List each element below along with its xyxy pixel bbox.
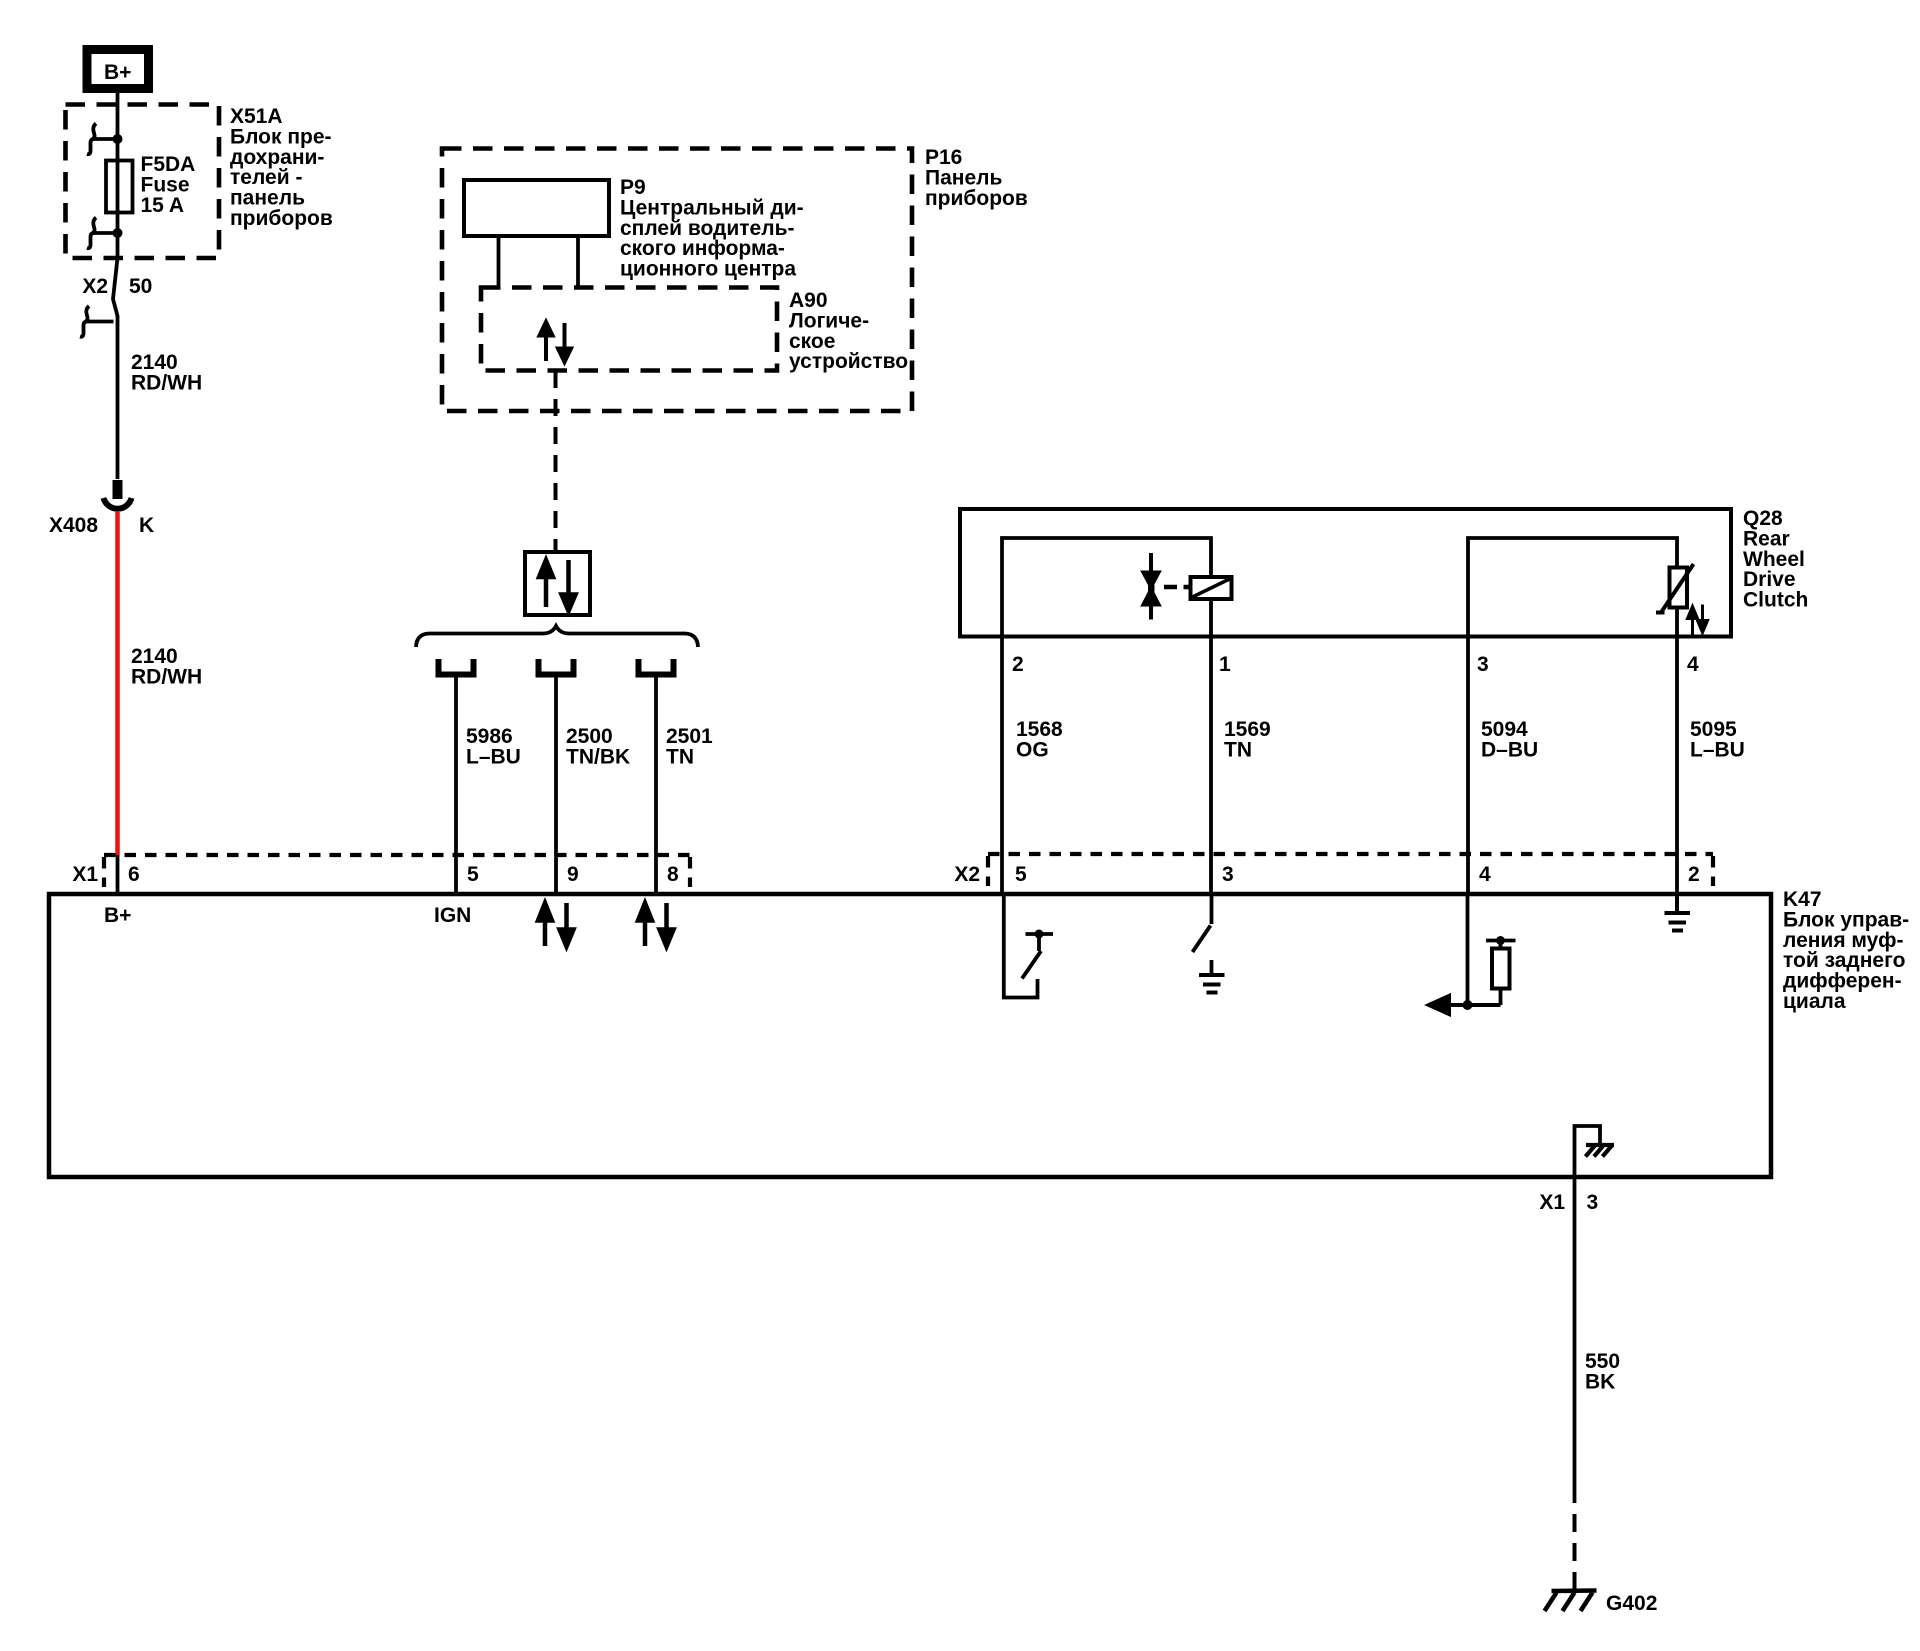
wire 2500 bbox=[554, 678, 558, 895]
terminal hook below fuse block bbox=[80, 306, 114, 337]
K47 serial down arrow pin 9 bbox=[560, 903, 574, 947]
svg-text:B+: B+ bbox=[104, 904, 131, 927]
X2 right terminator bbox=[1711, 856, 1715, 886]
svg-text:X1: X1 bbox=[72, 863, 98, 886]
wire fuse to connector row bbox=[116, 213, 120, 259]
clutch engage down arrow bbox=[1144, 553, 1159, 587]
K47 internal switch to ground under pin 3 bbox=[1193, 894, 1212, 973]
svg-text:8: 8 bbox=[667, 863, 679, 886]
B+ power feed symbol bbox=[87, 50, 149, 89]
svg-text:6: 6 bbox=[128, 863, 140, 886]
svg-text:5: 5 bbox=[467, 863, 479, 886]
left arrow under pin 4 bbox=[1429, 996, 1501, 1014]
G402 ground symbol bbox=[1545, 1591, 1597, 1612]
Q28 clutch coil loop left bbox=[1002, 538, 1211, 637]
switch pivot dot pin 5 bbox=[1035, 930, 1044, 939]
wire Q28 pin 4 to K47 bbox=[1675, 637, 1679, 895]
fuse F5DA bbox=[106, 161, 133, 213]
connector terminal U pin 5986 bbox=[439, 659, 474, 675]
wire 550 BK dashed bbox=[1573, 1514, 1577, 1591]
resistor box bbox=[1492, 949, 1510, 989]
resistor top dot bbox=[1496, 936, 1505, 945]
serial data box up arrow bbox=[539, 560, 553, 607]
svg-text:2: 2 bbox=[1012, 653, 1024, 676]
svg-text:X1: X1 bbox=[1539, 1191, 1565, 1214]
P16 instrument panel dashed box bbox=[442, 149, 912, 412]
wire Q28 pin 1 to K47 bbox=[1209, 637, 1213, 895]
K47 rear differential clutch control module box bbox=[49, 894, 1771, 1177]
wire Q28 pin 2 to K47 bbox=[1000, 637, 1004, 895]
X2 left terminator bbox=[986, 856, 990, 886]
junction dot upper bbox=[113, 134, 123, 144]
chassis ground symbol inside K47 bbox=[1586, 1145, 1615, 1157]
wire relay to pin 1 bbox=[1209, 599, 1213, 637]
clutch engage square dot bbox=[1148, 585, 1155, 592]
svg-text:50: 50 bbox=[129, 275, 152, 298]
serial data box bbox=[525, 552, 590, 615]
A90 serial data down arrow bbox=[558, 323, 571, 362]
terminal hook upper bbox=[87, 124, 118, 155]
ground symbol under pin 3 bbox=[1199, 975, 1225, 993]
svg-text:5095L–BU: 5095L–BU bbox=[1690, 718, 1745, 761]
svg-text:K: K bbox=[139, 514, 154, 537]
svg-text:X2: X2 bbox=[82, 275, 108, 298]
clutch engage up arrow bbox=[1144, 590, 1159, 620]
thermistor small down arrow bbox=[1698, 605, 1708, 633]
relay coil diagonal bbox=[1193, 579, 1230, 597]
A90 serial data up arrow bbox=[540, 322, 553, 361]
svg-text:550BK: 550BK bbox=[1585, 1350, 1620, 1393]
red wire 2140 RD/WH bbox=[115, 512, 120, 855]
thermistor small up arrow bbox=[1688, 607, 1698, 635]
svg-text:5986L–BU: 5986L–BU bbox=[466, 725, 521, 768]
svg-text:5: 5 bbox=[1015, 863, 1027, 886]
wire 2501 bbox=[654, 678, 658, 895]
wire Q28 pin 3 to K47 bbox=[1466, 637, 1470, 895]
svg-text:9: 9 bbox=[567, 863, 579, 886]
svg-text:3: 3 bbox=[1587, 1191, 1599, 1214]
junction dot pin 4 bbox=[1463, 1000, 1473, 1010]
inline connector X408 terminal bbox=[104, 480, 132, 509]
svg-text:G402: G402 bbox=[1606, 1592, 1657, 1615]
wire X51A to X408 with kink bbox=[113, 258, 118, 479]
wire 550 BK solid bbox=[1573, 1177, 1577, 1503]
Q28 rear wheel drive clutch box bbox=[960, 509, 1731, 637]
K47 internal wire pin 4 bbox=[1466, 894, 1470, 1005]
P9 leg wire right bbox=[576, 236, 580, 288]
wire 5986 bbox=[454, 678, 458, 895]
svg-text:3: 3 bbox=[1477, 653, 1489, 676]
brace bbox=[416, 626, 698, 647]
K47 internal switch under pin 5 bbox=[1004, 894, 1053, 998]
dashed serial data wire bbox=[554, 371, 558, 551]
X51A fuse block dashed box bbox=[66, 105, 220, 259]
K47 internal ground under pin 2 bbox=[1665, 894, 1691, 931]
svg-text:1: 1 bbox=[1219, 653, 1231, 676]
svg-text:3: 3 bbox=[1222, 863, 1234, 886]
terminal hook lower bbox=[87, 218, 118, 249]
X1 connector dashed line bbox=[104, 853, 690, 857]
wire B+ down to fuse bbox=[116, 93, 120, 161]
svg-text:X2: X2 bbox=[954, 863, 980, 886]
A90 logic device dashed box bbox=[481, 288, 777, 371]
connector terminal U pin 2501 bbox=[639, 659, 674, 675]
svg-text:X408: X408 bbox=[49, 514, 98, 537]
relay coil box bbox=[1191, 577, 1232, 599]
thermistor diagonal with foot bbox=[1656, 564, 1694, 613]
K47 internal chassis ground wire bbox=[1575, 1126, 1601, 1177]
serial data box down arrow bbox=[562, 560, 576, 611]
svg-text:4: 4 bbox=[1479, 863, 1491, 886]
P9 leg wire left bbox=[497, 236, 501, 288]
X2 connector dashed line bbox=[988, 852, 1713, 856]
junction dot lower bbox=[113, 228, 123, 238]
svg-text:4: 4 bbox=[1687, 653, 1699, 676]
thermistor box bbox=[1670, 568, 1688, 608]
K47 serial up arrow pin 8 bbox=[638, 903, 652, 946]
dash link to relay coil bbox=[1164, 585, 1191, 590]
internal resistor pin 4 bbox=[1486, 941, 1516, 1006]
svg-text:2: 2 bbox=[1688, 863, 1700, 886]
X1 left terminator bbox=[102, 857, 106, 887]
P9 driver information center display box bbox=[464, 180, 609, 236]
wire red to K47 pin 6 bbox=[116, 855, 120, 894]
connector terminal U pin 2500 bbox=[539, 659, 574, 675]
wire thermistor to pin 4 bbox=[1675, 608, 1679, 637]
X1 right terminator bbox=[688, 857, 692, 887]
svg-text:IGN: IGN bbox=[434, 904, 471, 927]
K47 serial up arrow pin 9 bbox=[538, 903, 552, 946]
K47 serial down arrow pin 8 bbox=[660, 903, 674, 947]
svg-text:B+: B+ bbox=[104, 61, 131, 84]
Q28 clutch loop right bbox=[1468, 538, 1677, 637]
